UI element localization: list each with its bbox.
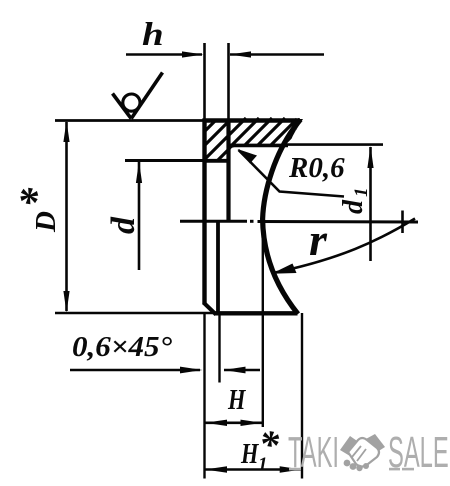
hatch band left (between part top and bore) xyxy=(201,118,231,162)
H1 dimension line xyxy=(205,468,303,471)
H arrow right xyxy=(241,420,263,426)
svg-text:0,6×45°: 0,6×45° xyxy=(72,331,172,363)
d1 arrow up xyxy=(367,146,373,168)
svg-text:d: d xyxy=(105,216,142,234)
H1 arrow left xyxy=(205,466,227,472)
r leader arrowhead xyxy=(272,264,297,274)
D* dimension line vertical xyxy=(65,122,68,311)
svg-text:H: H xyxy=(227,385,246,416)
svg-text:d: d xyxy=(338,199,369,214)
H1 arrow right xyxy=(280,466,302,472)
H dimension line xyxy=(205,421,264,424)
d1 dimension line vertical xyxy=(369,147,372,261)
svg-text:H: H xyxy=(240,439,259,470)
centerline dash 1 xyxy=(180,220,247,223)
svg-text:r: r xyxy=(309,214,328,265)
H right extension line (from cavity apex) xyxy=(262,220,264,427)
h dim arrow right-pointing xyxy=(182,51,204,57)
concave inner surface curve (radius r) xyxy=(263,120,301,315)
svg-text:h: h xyxy=(142,16,164,53)
chamfer edge extension line below part xyxy=(218,313,220,383)
top extension line (D* upper, to the left of part) xyxy=(55,119,205,122)
d1 top extension line xyxy=(286,143,383,146)
svg-text:1: 1 xyxy=(351,188,372,198)
surface roughness symbol (circle-in-check) xyxy=(113,73,163,119)
R0,6 leader with arrow to fillet xyxy=(239,150,345,197)
centerline dash 2 xyxy=(258,220,419,224)
bottom extension line (D* lower, to the left of part) xyxy=(55,312,215,315)
centerline dot xyxy=(250,220,254,223)
part left face xyxy=(202,119,206,305)
fillet R0,6 corner xyxy=(229,145,235,150)
radius center mark + xyxy=(401,211,404,234)
part top edge xyxy=(203,118,301,123)
left face extension below part xyxy=(203,313,205,479)
bore top edge inside part xyxy=(203,159,230,163)
cavity left face (vertical, section upper half) xyxy=(226,120,230,222)
0,6 dimension line right part with left-pointing arrow xyxy=(224,369,260,372)
0,6 dimension line left part with right-pointing arrow xyxy=(70,369,200,372)
D* arrow up xyxy=(63,121,69,142)
corner thickening at curve start xyxy=(291,119,303,130)
svg-text:*: * xyxy=(259,422,280,467)
H arrow left xyxy=(205,420,227,426)
r leader from center mark to curve xyxy=(273,219,415,274)
d dimension line vertical xyxy=(138,162,141,270)
svg-text:*: * xyxy=(17,180,39,226)
hatch band right (between part top and cavity top) xyxy=(226,118,305,149)
svg-text:R0,6: R0,6 xyxy=(288,152,345,184)
h dimension line left segment xyxy=(126,53,202,56)
h extension line left (above part) xyxy=(203,43,206,119)
h extension line right (above part) xyxy=(227,43,230,120)
H1 right extension line xyxy=(301,313,303,479)
D* arrow down xyxy=(63,291,69,313)
watermark handshake icon xyxy=(340,434,385,471)
h dim arrow left-pointing xyxy=(230,51,252,57)
h dimension line right segment xyxy=(230,53,324,56)
d arrow up xyxy=(136,161,142,183)
chamfer 0,6x45 at bottom-left xyxy=(204,303,217,315)
cavity top inner edge xyxy=(229,144,288,148)
bore top edge extension (left of part) xyxy=(125,159,204,162)
chamfer edge line (lower half view) xyxy=(216,223,220,314)
part bottom edge xyxy=(214,311,298,315)
